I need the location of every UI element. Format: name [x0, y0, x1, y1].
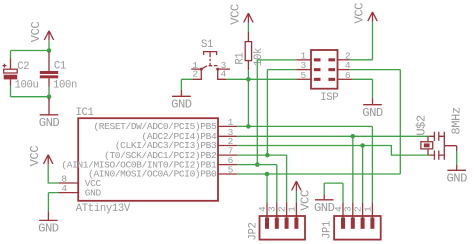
- ISP pin 5: [296, 70, 320, 81]
- svg-text:IC1: IC1: [76, 107, 94, 119]
- ground GND symbol 4 (ISP): [362, 98, 383, 120]
- ground GND symbol 5 (JP1): [314, 195, 335, 216]
- svg-text:(AIN0/MOSI/OC0A/PCI0)PB0: (AIN0/MOSI/OC0A/PCI0)PB0: [88, 169, 217, 180]
- svg-text:U$2: U$2: [414, 115, 428, 136]
- svg-text:JP1: JP1: [322, 221, 334, 239]
- junction PB4: [351, 134, 356, 139]
- svg-text:GND: GND: [362, 106, 383, 120]
- svg-text:100n: 100n: [53, 80, 77, 92]
- svg-text:6: 6: [345, 70, 351, 81]
- capacitor C1 (100n): [40, 52, 77, 92]
- wire C1/C2 bottom rail: [11, 86, 50, 102]
- svg-text:GND: GND: [85, 187, 102, 198]
- svg-text:C2: C2: [17, 61, 29, 73]
- svg-text:2: 2: [192, 69, 198, 80]
- svg-text:100u: 100u: [15, 80, 39, 92]
- svg-text:4: 4: [221, 69, 227, 80]
- ISP pin 1: [296, 50, 320, 61]
- wire JP2 pin1 to VCC: [295, 191, 297, 202]
- svg-text:10k: 10k: [253, 48, 265, 66]
- IC1 pin 1 PB5: [93, 117, 237, 132]
- ground GND symbol 1 (below C1/C2): [39, 98, 60, 130]
- wire net SCK: IC pin7 / ISP pin3 / JP2 pin2: [237, 70, 296, 203]
- power VCC symbol 5 (JP2): [292, 181, 313, 211]
- wire ISP pin2 to VCC: [349, 22, 373, 60]
- power VCC symbol 3 (R1 pullup): [228, 4, 253, 25]
- JP1 pin 4: [333, 203, 345, 229]
- svg-text:8MHz: 8MHz: [449, 107, 463, 134]
- wire VCC to R1: [247, 23, 249, 32]
- power VCC symbol 2 (IC supply): [28, 146, 53, 167]
- JP1 pin 3: [343, 203, 355, 229]
- ground GND symbol 2 (S1): [171, 90, 192, 112]
- IC1 pin 8 VCC: [59, 174, 102, 189]
- svg-text:GND: GND: [446, 172, 467, 186]
- wire net PB4: IC pin3 / crystal / JP1 pin3: [237, 136, 429, 202]
- ISP pin 6: [328, 70, 352, 81]
- svg-text:GND: GND: [314, 201, 335, 215]
- svg-text:VCC: VCC: [29, 22, 43, 43]
- wire ISP pin6 to GND: [352, 79, 373, 98]
- junction MISO: [255, 162, 260, 167]
- junction RESET at R1 bottom: [246, 77, 251, 82]
- svg-text:5: 5: [228, 165, 234, 176]
- wire R1 bottom to RESET node: [247, 70, 249, 79]
- svg-text:1: 1: [286, 206, 297, 212]
- junction RESET at IC pin1: [246, 124, 251, 129]
- wire S1 pin2 to GND: [181, 79, 192, 90]
- junction PB3: [360, 143, 365, 148]
- power VCC symbol 1: [29, 22, 54, 43]
- power VCC symbol 4 (ISP): [353, 3, 378, 24]
- capacitor C2 (electrolytic 100u): [3, 59, 39, 92]
- svg-text:5: 5: [301, 70, 307, 81]
- svg-text:4: 4: [61, 183, 67, 194]
- svg-text:GND: GND: [39, 116, 60, 130]
- switch S1: [191, 39, 230, 80]
- IC1 pin 3 PB4: [142, 127, 238, 142]
- JP2 pin 2: [277, 203, 289, 229]
- wire crystal middle pin to GND: [456, 151, 458, 165]
- wire net PB3/CLKI: IC pin2 / crystal / JP1 pin2: [237, 146, 429, 203]
- wire VCC net top-left (C1/C2 top rail): [11, 41, 50, 59]
- connector ISP header: [311, 50, 338, 104]
- svg-text:ATtiny13V: ATtiny13V: [76, 203, 131, 215]
- wire IC pin 4 to GND: [48, 193, 58, 212]
- JP2 pin 3: [267, 203, 279, 229]
- JP2 pin 1: [286, 203, 298, 229]
- svg-text:VCC: VCC: [28, 146, 42, 167]
- ground GND symbol 6 (crystal): [446, 165, 467, 186]
- svg-text:1: 1: [362, 206, 373, 212]
- junction node C1/C2 bottom: [47, 94, 52, 99]
- svg-text:GND: GND: [38, 222, 59, 236]
- svg-text:S1: S1: [201, 39, 213, 51]
- resistor R1 10k: [235, 32, 265, 70]
- wire net MISO: IC pin6 / ISP pin1 / JP2 pin3: [237, 60, 296, 203]
- wire net RESET: S1/R1/ISP5/IC pin1/JP1 pin1: [226, 79, 372, 202]
- junction MOSI: [265, 172, 270, 177]
- IC1 pin 2 PB3: [115, 136, 237, 151]
- connector JP1: [322, 216, 381, 240]
- svg-text:R1: R1: [235, 53, 247, 65]
- svg-text:VCC: VCC: [299, 190, 313, 211]
- svg-text:C1: C1: [54, 61, 66, 73]
- JP1 pin 2: [353, 203, 365, 229]
- JP2 pin 4: [257, 203, 269, 229]
- crystal resonator U$2 8MHz: [414, 107, 463, 160]
- connector JP2: [247, 216, 305, 241]
- svg-text:GND: GND: [171, 98, 192, 112]
- wire net MOSI: IC pin5 / ISP pin4 / JP2 pin4: [237, 70, 400, 203]
- ISP pin 3: [296, 60, 320, 71]
- junction node C1/C2 top: [47, 48, 52, 53]
- JP1 pin 1: [362, 203, 374, 229]
- svg-text:VCC: VCC: [353, 3, 367, 24]
- ISP pin 4: [328, 60, 351, 71]
- wire JP1 pin4 to GND: [324, 183, 343, 202]
- junction SCK: [265, 153, 270, 158]
- IC1 pin 4 GND: [59, 183, 102, 198]
- svg-text:VCC: VCC: [228, 4, 242, 25]
- wire VCC to IC pin 8: [48, 165, 58, 183]
- ground GND symbol 3 (IC ground): [38, 211, 59, 235]
- IC1 pin 5 PB0: [88, 165, 237, 180]
- IC1 pin 6 PB1: [61, 155, 237, 170]
- IC1 pin 7 PB2: [104, 146, 237, 161]
- microcontroller IC1 ATtiny13V: [76, 107, 219, 215]
- ISP pin 2: [328, 50, 351, 61]
- svg-text:ISP: ISP: [320, 92, 338, 104]
- svg-text:JP2: JP2: [247, 222, 259, 240]
